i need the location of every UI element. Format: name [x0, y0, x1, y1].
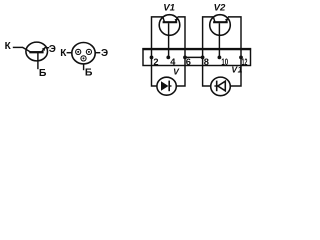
emitter arrow	[42, 47, 46, 51]
base pin dot	[83, 57, 85, 59]
V2 emitter arrow	[225, 19, 228, 22]
V1 emitter diagonal	[175, 17, 177, 22]
V3 circle	[157, 77, 176, 95]
V1 right wire to pin 6	[176, 17, 185, 86]
V1 emitter arrow	[175, 19, 178, 22]
collector lead dash	[67, 52, 72, 54]
svg-text:К: К	[5, 41, 12, 52]
emitter pin dot	[88, 51, 90, 53]
svg-text:V1: V1	[163, 3, 175, 14]
junction pin 12	[239, 56, 243, 60]
V2 left wire to pin 8	[203, 17, 214, 86]
diode V3 (left)	[157, 77, 176, 95]
V1 collector diagonal	[163, 17, 165, 22]
svg-text:Э: Э	[49, 44, 56, 55]
emitter lead dash	[95, 52, 100, 54]
V2 body circle	[210, 15, 231, 36]
V4 inner lead	[214, 85, 216, 87]
svg-text:10: 10	[221, 57, 228, 67]
svg-text:4: 4	[170, 57, 176, 67]
V3 inner lead	[169, 85, 171, 87]
emitter lead	[41, 48, 44, 52]
V2 right wire to pin 12	[228, 17, 241, 86]
svg-text:8: 8	[204, 57, 209, 67]
V4 cathode bar	[216, 81, 218, 92]
base bar	[29, 51, 43, 53]
transistor symbol (left pinout figure)	[13, 42, 49, 69]
emitter pin circle	[86, 49, 91, 54]
V4 circle	[211, 77, 231, 96]
socket strip top edge (thick)	[142, 48, 251, 50]
svg-text:Э: Э	[101, 48, 108, 59]
junction pin 4	[166, 56, 170, 60]
junction pin 2	[150, 56, 154, 60]
transistor V2	[203, 15, 241, 86]
transistor package bottom view (right pinout figure)	[67, 43, 101, 71]
socket strip rectangle	[143, 49, 251, 66]
wire pin6-pin8	[185, 56, 203, 58]
V2 base bar	[213, 21, 228, 23]
V1 body circle	[159, 15, 180, 36]
V3 triangle	[161, 81, 168, 91]
V4 triangle	[218, 81, 226, 91]
svg-text:12: 12	[242, 57, 248, 67]
V2 emitter diagonal	[226, 17, 228, 22]
V1 left wire to pin 2	[152, 17, 163, 86]
svg-text:Б: Б	[85, 66, 93, 78]
diode V4 (right)	[211, 77, 231, 96]
V2 base lead wire	[218, 23, 220, 57]
svg-text:6: 6	[186, 57, 191, 67]
base pin circle	[81, 56, 86, 61]
collector pin circle	[76, 49, 81, 54]
svg-text:1: 1	[238, 65, 243, 75]
junction pin 8	[201, 56, 205, 60]
transistor body circle	[26, 42, 48, 61]
svg-text:V2: V2	[214, 3, 226, 14]
base lead dash	[83, 64, 85, 70]
V1 base lead wire	[168, 23, 170, 57]
collector lead	[13, 46, 23, 48]
V3 cathode bar	[168, 81, 170, 92]
collector pin dot	[77, 51, 79, 53]
transistor V1	[152, 15, 186, 86]
junction pin 10	[218, 56, 222, 60]
base lead	[37, 53, 39, 70]
V1 base bar	[163, 21, 178, 23]
package circle	[72, 43, 95, 64]
junction pin 6	[183, 56, 187, 60]
svg-text:Б: Б	[39, 67, 47, 79]
V2 collector diagonal	[213, 17, 215, 22]
svg-text:К: К	[60, 48, 67, 59]
svg-text:2: 2	[153, 57, 158, 67]
